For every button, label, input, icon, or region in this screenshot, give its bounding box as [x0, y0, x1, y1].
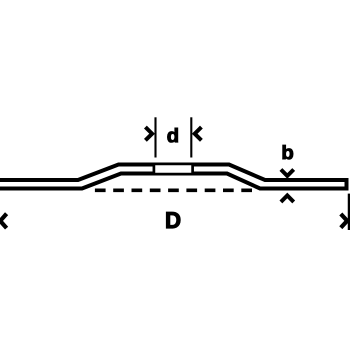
dashed hidden line (flat plane through hub) — [95, 188, 252, 192]
bore hole d (white rectangle in hub) — [154, 164, 193, 174]
arrowhead D left (points left, at image edge) — [0, 214, 6, 228]
arrowhead b upper (points down at disc top) — [281, 170, 294, 176]
arrowhead b lower (points up at disc bottom) — [281, 196, 294, 202]
label D — [167, 212, 181, 228]
extension line right of bore d — [190, 117, 192, 157]
label d — [168, 128, 178, 142]
label b — [283, 145, 293, 159]
extension line right of D — [348, 194, 350, 230]
disc cross-section outline (depressed-center wheel profile) — [0, 165, 347, 189]
arrowhead d left (points right) — [145, 127, 152, 140]
arrowhead d right (points left) — [195, 127, 202, 140]
arrowhead D right (points right) — [341, 214, 347, 228]
extension line left of bore d — [154, 117, 156, 157]
